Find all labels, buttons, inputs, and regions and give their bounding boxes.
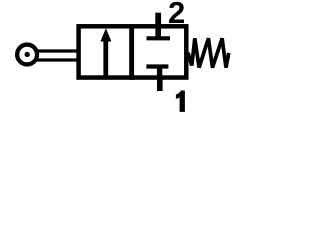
port 1 external line: [157, 79, 163, 91]
port 2 external line: [155, 13, 161, 27]
plunger stem upper line: [36, 49, 80, 52]
flow arrow head: [100, 28, 111, 41]
svg-text:2: 2: [168, 0, 185, 30]
plunger stem lower line: [35, 58, 80, 61]
valve body outer rectangle: [79, 26, 187, 77]
port 2 blocked crossbar: [147, 36, 171, 40]
port 2 blocked stub: [155, 27, 161, 37]
return spring: [188, 38, 229, 67]
port 1 blocked stub: [157, 68, 162, 78]
valve body center divider: [129, 24, 134, 80]
port label 1: [176, 91, 185, 112]
flow arrow shaft: [103, 39, 108, 77]
port 1 blocked crossbar: [146, 64, 168, 68]
roller circle: [17, 45, 37, 65]
roller axle dot: [25, 52, 30, 57]
